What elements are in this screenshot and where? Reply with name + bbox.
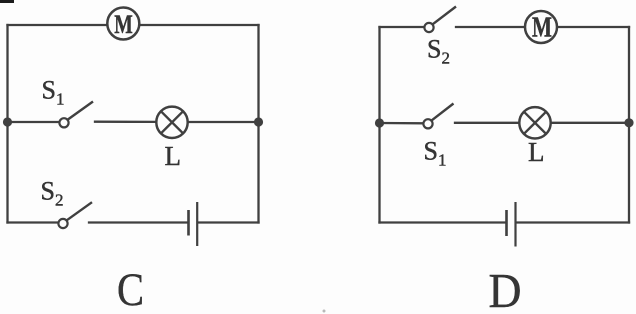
motor M (circuit D) [525,11,557,44]
svg-text:L: L [528,137,545,167]
wire: D middle branch from lamp to right rail [551,122,629,124]
wire: C top rail [8,24,259,26]
switch S1 (circuit C) [59,102,93,128]
wire: C bottom rail from battery to right rail [198,221,259,223]
wire: D bottom rail from battery to right rail [517,221,630,223]
node: D right junction [624,118,633,127]
wire: C middle branch from lamp to right rail [188,121,259,123]
node: C left junction [3,117,12,126]
wire: C middle branch from switch S1 to lamp [95,121,157,124]
wire: D bottom rail left segment to battery [380,221,505,223]
node: D left junction [375,118,384,127]
svg-text:L: L [165,141,182,171]
lamp L (circuit C) [156,107,187,138]
svg-text:C: C [117,264,144,314]
wire: D top rail from switch S2 to motor [456,26,525,28]
wire: C bottom rail from switch S2 to battery [89,221,187,223]
wire: D top rail left segment to switch S2 [380,26,425,28]
svg-text:S2: S2 [41,177,64,210]
battery (circuit C) [189,202,198,246]
svg-text:S1: S1 [424,137,447,170]
motor M (circuit C) [107,8,139,40]
switch S1 (circuit D) [423,104,453,129]
svg-text:S2: S2 [427,35,450,68]
svg-text:D: D [489,263,522,314]
battery (circuit D) [507,202,516,247]
svg-text:M: M [114,9,133,39]
wire: C bottom rail left segment to switch S2 [8,221,59,223]
wire: D middle branch from switch S1 to lamp [455,122,520,124]
wire: D middle branch left segment to switch S1 [380,122,424,125]
svg-text:M: M [532,12,552,44]
wire: D right rail [628,27,630,223]
lamp L (circuit D) [519,107,550,138]
wire: D top rail from motor to right rail [558,26,630,28]
circuit C wire group [8,25,259,223]
node: C right junction [254,117,263,126]
svg-text:S1: S1 [42,76,65,109]
switch S2 (circuit C) [58,202,92,228]
switch S2 (circuit D) [424,7,456,33]
wire: C left rail [6,25,8,223]
wire: C middle branch left segment to switch S1 [8,121,60,123]
wire: C right rail [257,25,259,223]
wire: D left rail [378,27,380,223]
circuit D wire group [380,27,630,223]
